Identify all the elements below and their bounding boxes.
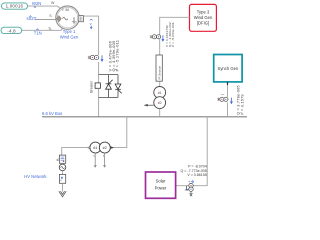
ground of source chain <box>59 183 66 197</box>
wire DFIG to chain <box>160 17 190 35</box>
svg-text:V = 0.86155: V = 0.86155 <box>187 173 206 177</box>
wire S input <box>35 19 57 21</box>
thyristor T_up <box>106 75 113 98</box>
block Solar Power <box>146 172 176 198</box>
svg-text:I M: I M <box>62 7 69 12</box>
svg-text:V = 3.479e-006: V = 3.479e-006 <box>108 40 113 71</box>
svg-text:W2N: W2N <box>32 1 41 6</box>
wire meter to bus <box>227 103 229 117</box>
terminal block of M1 <box>79 16 84 22</box>
svg-text:#2: #2 <box>103 146 107 150</box>
wire bus to T3 <box>114 117 127 148</box>
svg-text:T1N: T1N <box>34 31 42 36</box>
multimeter MM1 <box>88 55 103 61</box>
svg-text:Synch Gen: Synch Gen <box>218 66 239 71</box>
svg-text:TL: TL <box>48 27 52 31</box>
svg-text:v: v <box>90 22 92 26</box>
value label P Q at Synch Gen <box>235 85 244 115</box>
svg-text:V = 0.0011730: V = 0.0011730 <box>165 25 169 47</box>
multimeter MM2 <box>150 35 164 41</box>
svg-text:Breaker: Breaker <box>89 80 93 93</box>
ac source V1 <box>59 163 66 170</box>
ground stub under T3 primary <box>94 153 97 168</box>
wire TL input <box>22 28 63 30</box>
wire T2 to bus <box>159 109 161 117</box>
svg-text:#1: #1 <box>93 146 97 150</box>
source impedance Z1 <box>57 155 66 163</box>
block Synch Gen <box>214 55 242 82</box>
breaker BRK <box>89 80 100 93</box>
svg-text:-4.8: -4.8 <box>7 28 16 33</box>
svg-text:#2: #2 <box>158 101 162 105</box>
value label P Q V at M1 output <box>108 39 120 71</box>
thyristor T_dn <box>115 75 122 98</box>
node W speed-input pill (value 1.00016) <box>2 3 28 9</box>
wire thyristor parallel bottom bar <box>99 96 118 98</box>
svg-text:P = 0.1579: P = 0.1579 <box>240 94 245 115</box>
svg-text:Q = 3.778e-005: Q = 3.778e-005 <box>235 85 240 115</box>
wire W input <box>28 6 61 9</box>
wire Synch Gen stub <box>227 82 229 85</box>
bus 6.6 kV <box>42 116 247 118</box>
multimeter MM4 <box>187 181 194 196</box>
svg-text:Wind Gen: Wind Gen <box>60 35 79 40</box>
svg-text:Solar: Solar <box>156 178 166 183</box>
svg-text:HV Network: HV Network <box>24 174 47 179</box>
svg-text:[DFIG]: [DFIG] <box>197 20 209 25</box>
svg-text:#1: #1 <box>158 91 162 95</box>
value label P Q V at DFIG <box>165 22 175 47</box>
junction tick solar <box>185 186 188 190</box>
wire meter to breaker <box>98 62 100 83</box>
induction machine M1 (Type 1 Wind Gen) <box>56 6 79 29</box>
svg-text:sS2T: sS2T <box>27 16 37 21</box>
wire T3 to source chain <box>62 148 91 156</box>
wire thyristor parallel top bar <box>99 74 118 76</box>
block Type 3 Wind Gen [DFIG] <box>190 4 217 31</box>
svg-text:Type 1: Type 1 <box>63 29 76 34</box>
svg-text:1.00016: 1.00016 <box>6 4 24 9</box>
source control block Z2 <box>59 171 65 184</box>
wire breaker to bus <box>98 88 100 117</box>
value label P Q V at Solar <box>181 165 207 178</box>
svg-text:PI Section: PI Section <box>158 65 162 79</box>
wire bus to solar branch <box>176 117 208 186</box>
voltage probe arrow v <box>90 20 93 29</box>
wire meter to PI section <box>159 39 161 55</box>
svg-text:W: W <box>51 1 55 5</box>
node TL torque-input pill (value 4.8) <box>1 27 22 33</box>
arrow into T3 right <box>110 146 114 149</box>
transformer T2 <box>144 87 165 109</box>
PI section line <box>156 55 162 81</box>
wire PI section to transformer <box>159 81 161 87</box>
svg-text:Type 3: Type 3 <box>197 10 210 15</box>
svg-text:Wind Gen: Wind Gen <box>194 15 213 20</box>
multimeter MM3 <box>217 94 232 103</box>
svg-text:6.6 kV Bus: 6.6 kV Bus <box>42 111 62 116</box>
wire M1 output to breaker branch <box>83 16 98 55</box>
label Type 1 Wind Gen <box>60 29 79 39</box>
ground stub under T3 secondary <box>103 153 106 168</box>
svg-text:Power: Power <box>155 185 167 190</box>
arrow into T3 left <box>86 146 90 149</box>
transformer T3 <box>90 142 110 153</box>
